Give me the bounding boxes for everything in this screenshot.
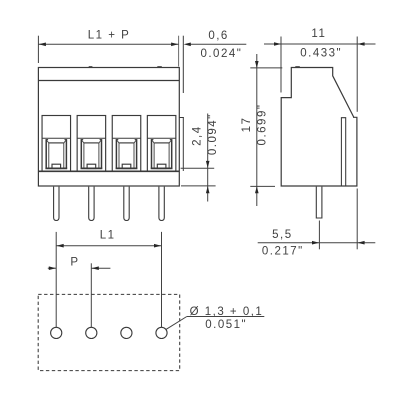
hole 2 <box>86 327 97 338</box>
dimension 0,6 / 0.024" (end gap) <box>179 36 246 171</box>
side view pin <box>316 187 322 218</box>
svg-text:0,6: 0,6 <box>208 30 229 42</box>
svg-text:11: 11 <box>311 28 326 40</box>
body profile side view <box>281 68 357 187</box>
footprint outline (dashed) <box>38 294 180 370</box>
screw slot <box>341 118 345 186</box>
dimension P (pitch) <box>48 263 111 327</box>
hole diameter callout Ø 1,3 + 0,1 / 0.051" <box>166 317 265 330</box>
svg-text:17: 17 <box>241 117 253 133</box>
dimension L1 + P <box>38 36 178 67</box>
svg-text:0.699": 0.699" <box>256 104 268 146</box>
svg-text:P: P <box>70 256 79 268</box>
hole 4 <box>156 327 167 338</box>
dimension 17 / 0.699" (height) <box>250 54 282 206</box>
svg-text:Ø 1,3 + 0,1: Ø 1,3 + 0,1 <box>190 306 264 318</box>
svg-text:0.024": 0.024" <box>200 48 242 60</box>
tick mark on side top edge <box>295 66 300 68</box>
terminal cell 3 <box>112 116 141 172</box>
mold tick marks on top edge <box>89 66 162 68</box>
pin 4 <box>159 187 164 221</box>
dimension L1 (hole span) <box>56 232 161 327</box>
terminal cell 4 <box>147 116 176 172</box>
dimension 2,4 / 0.094" (pin shoulder height) <box>181 114 216 202</box>
svg-text:0.094": 0.094" <box>207 113 219 155</box>
pin 1 <box>54 187 59 221</box>
body outline front view <box>38 68 179 187</box>
pin 3 <box>124 187 129 221</box>
terminal cell 1 <box>42 116 71 172</box>
hole 3 <box>121 327 132 338</box>
svg-text:0.051": 0.051" <box>205 319 247 331</box>
svg-text:L1: L1 <box>100 230 116 242</box>
svg-text:0.433": 0.433" <box>300 47 342 59</box>
terminal cell 2 <box>77 116 106 172</box>
svg-text:5,5: 5,5 <box>272 229 293 241</box>
dimension 11 / 0.433" (depth) <box>264 37 376 112</box>
svg-text:2,4: 2,4 <box>191 125 203 146</box>
dimension 5,5 / 0.217" (pin offset) <box>258 189 376 250</box>
svg-text:L1 + P: L1 + P <box>88 30 131 42</box>
hole 1 <box>51 327 62 338</box>
pin 2 <box>89 187 94 221</box>
svg-text:0.217": 0.217" <box>262 246 304 258</box>
